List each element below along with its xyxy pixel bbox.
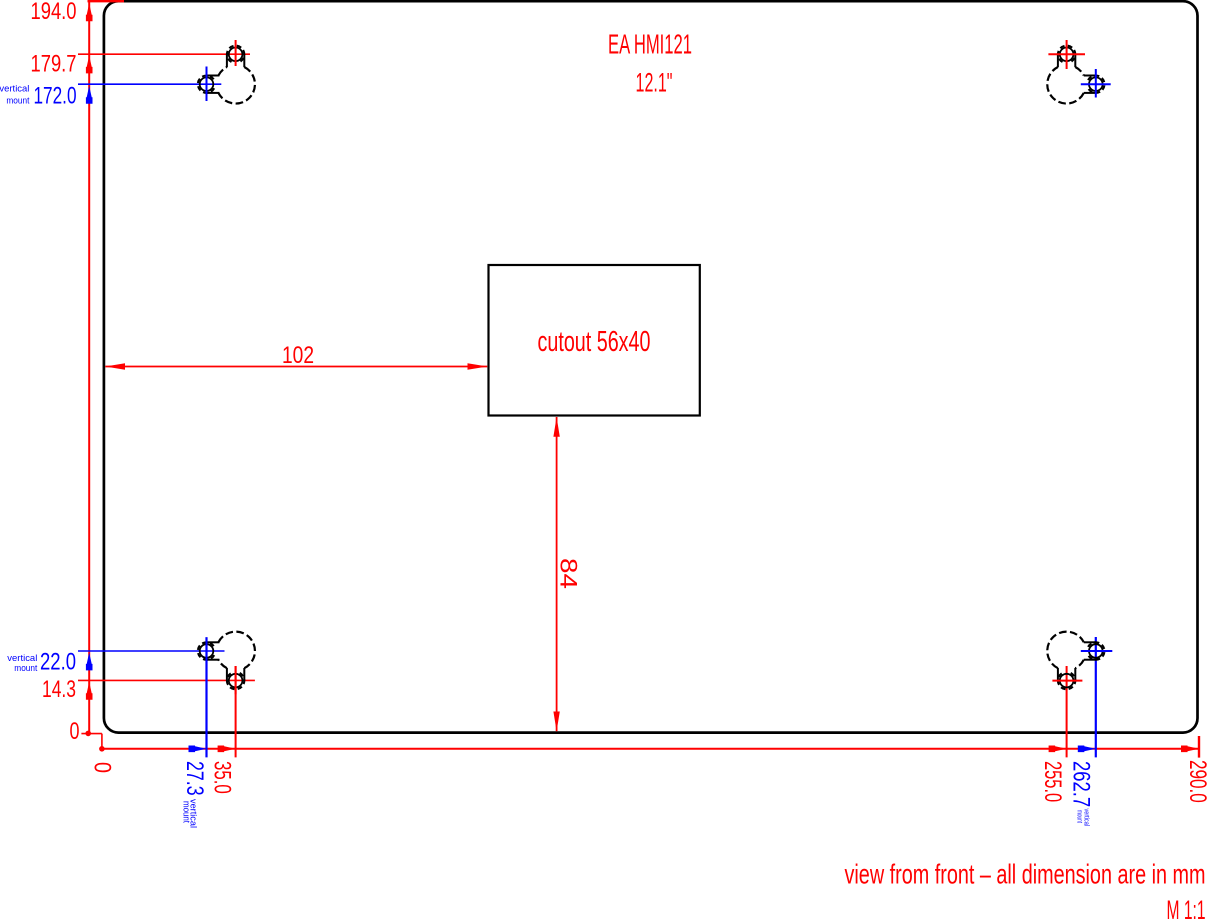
- svg-text:mount: mount: [6, 96, 29, 107]
- mounting hole top-left: [198, 40, 255, 104]
- bottom chain start dot: [99, 746, 105, 752]
- svg-text:cutout 56x40: cutout 56x40: [538, 326, 651, 358]
- dim 14.3 arrow: [86, 682, 93, 700]
- svg-text:vertical: vertical: [0, 83, 29, 94]
- dim 172.0 extension line (vertical mount): [78, 83, 221, 85]
- dim 172.0 arrow: [86, 86, 93, 104]
- dim 0 left line: [81, 733, 102, 735]
- left vertical dimension line: [88, 1, 90, 734]
- bottom 35.0 arrow: [218, 746, 236, 753]
- svg-text:262.7: 262.7: [1068, 761, 1095, 807]
- dim 179.7 extension line: [78, 53, 250, 55]
- svg-text:22.0: 22.0: [40, 649, 76, 676]
- dim 102 right arrow: [468, 363, 488, 369]
- dim 179.7 arrow: [86, 55, 93, 73]
- bottom 290.0 end tick: [1198, 736, 1200, 758]
- mounting hole top-right: [1047, 40, 1110, 104]
- svg-text:290.0: 290.0: [1184, 760, 1208, 803]
- svg-text:179.7: 179.7: [31, 51, 77, 78]
- mounting hole bottom-left: [198, 632, 255, 695]
- connector from 0 down to bottom chain: [101, 734, 103, 749]
- dim 194.0 extension line: [88, 0, 125, 2]
- svg-text:255.0: 255.0: [1039, 761, 1066, 802]
- dim 194.0 arrow: [86, 3, 93, 21]
- svg-text:mount: mount: [1076, 810, 1085, 824]
- dim 22.0 arrow: [86, 652, 93, 670]
- bottom 27.3 arrow: [189, 746, 207, 753]
- svg-text:35.0: 35.0: [209, 761, 236, 794]
- bottom 262.7 arrow: [1078, 746, 1096, 753]
- bottom 27.3 extension line: [205, 637, 207, 757]
- svg-text:EA HMI121: EA HMI121: [608, 29, 692, 60]
- svg-text:194.0: 194.0: [31, 0, 77, 25]
- svg-text:view from front – all dimensio: view from front – all dimension are in m…: [845, 859, 1206, 890]
- svg-text:12.1": 12.1": [636, 68, 673, 98]
- svg-text:14.3: 14.3: [42, 676, 76, 703]
- cutout rectangle: [489, 265, 700, 416]
- bottom 262.7 extension line: [1095, 637, 1097, 757]
- svg-text:M 1:1: M 1:1: [1167, 895, 1206, 921]
- svg-text:102: 102: [282, 342, 314, 369]
- bottom 290.0 arrow: [1181, 746, 1199, 753]
- dim 102 left arrow: [105, 363, 125, 369]
- bottom 255.0 extension line: [1066, 666, 1068, 757]
- dim 84 top arrow: [553, 417, 559, 437]
- svg-text:27.3: 27.3: [181, 761, 208, 796]
- panel outline: [104, 1, 1198, 732]
- dim 22.0 extension line (vertical mount): [78, 650, 225, 652]
- dim 0 left dot: [85, 731, 91, 737]
- svg-text:mount: mount: [14, 663, 37, 674]
- bottom horizontal dimension line: [102, 748, 1199, 750]
- dim 84 bottom arrow: [553, 712, 559, 732]
- svg-text:mount: mount: [182, 801, 192, 823]
- mounting hole bottom-right: [1047, 632, 1112, 690]
- bottom 35.0 extension line: [235, 666, 237, 757]
- svg-text:172.0: 172.0: [34, 83, 77, 110]
- bottom 255.0 arrow: [1049, 746, 1067, 753]
- svg-text:84: 84: [555, 558, 582, 589]
- dim 102 line: [105, 366, 487, 368]
- svg-text:0: 0: [70, 718, 80, 745]
- dim 14.3 extension line: [78, 679, 255, 681]
- dim 84 line: [556, 417, 558, 731]
- svg-text:0: 0: [89, 762, 116, 773]
